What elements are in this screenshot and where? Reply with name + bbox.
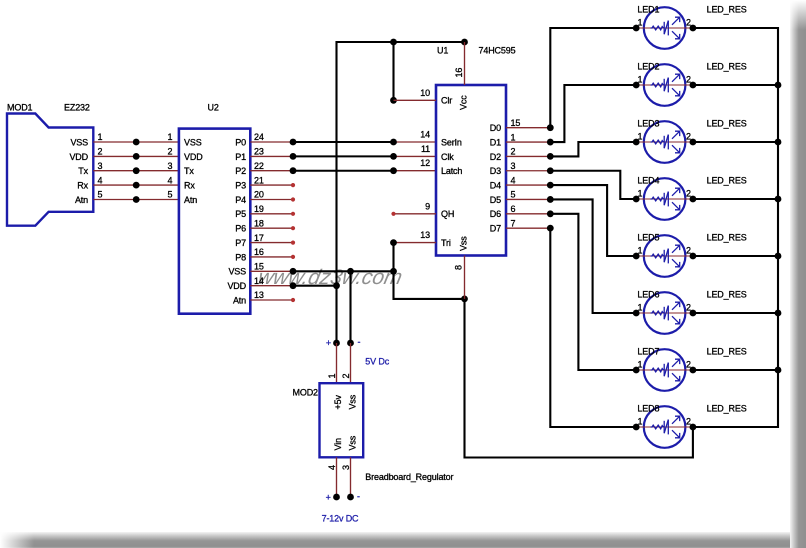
- svg-text:7-12v DC: 7-12v DC: [322, 514, 359, 524]
- wire MOD2 pin 3 to 7-12v minus terminal: [350, 457, 352, 497]
- svg-text:-: -: [357, 492, 360, 502]
- svg-text:2: 2: [341, 374, 351, 379]
- wire U1.D7 to LED8 anode: [550, 228, 636, 427]
- wire U1.D1 to LED2 anode: [550, 85, 636, 142]
- svg-text:LED8: LED8: [637, 404, 659, 414]
- svg-text:VSS: VSS: [70, 137, 88, 147]
- pin stub U2.VDD (14): [250, 285, 293, 287]
- svg-text:2: 2: [686, 18, 691, 28]
- svg-text:U1: U1: [437, 46, 448, 56]
- svg-text:2: 2: [686, 417, 691, 427]
- svg-text:6: 6: [511, 204, 516, 214]
- svg-text:D2: D2: [490, 152, 501, 162]
- svg-text:VSS: VSS: [184, 137, 202, 147]
- U1 left pin numbers 14,11,12: [420, 130, 430, 169]
- wire U2.P1 to U1.Clk: [250, 153, 436, 160]
- svg-text:LED_RES: LED_RES: [707, 62, 747, 72]
- svg-text:SerIn: SerIn: [441, 137, 462, 147]
- svg-text:Breadboard_Regulator: Breadboard_Regulator: [365, 472, 453, 482]
- unconnected pin stub U2.P8: [250, 255, 295, 259]
- unconnected pin stub U2.P5: [250, 212, 295, 216]
- svg-text:D0: D0: [490, 123, 501, 133]
- svg-text:Vss: Vss: [347, 435, 357, 450]
- svg-text:P4: P4: [235, 195, 246, 205]
- svg-text:74HC595: 74HC595: [479, 46, 516, 56]
- LED LED6 (LED_RES): [633, 290, 747, 334]
- wire LED7 pin 2 to bus with junction dot: [693, 367, 781, 374]
- pin stub U1.D3: [506, 167, 554, 174]
- unconnected pin stub U2.P6: [250, 226, 295, 230]
- svg-text:VDD: VDD: [69, 152, 88, 162]
- svg-text:3: 3: [98, 161, 103, 171]
- svg-text:16: 16: [454, 68, 464, 78]
- svg-text:+: +: [326, 493, 331, 503]
- U2 right pin numbers 24..13: [254, 132, 264, 300]
- svg-text:LED_RES: LED_RES: [707, 5, 747, 15]
- svg-text:LED_RES: LED_RES: [707, 347, 747, 357]
- svg-text:Atn: Atn: [75, 195, 88, 205]
- svg-text:D6: D6: [490, 209, 501, 219]
- svg-text:D5: D5: [490, 195, 501, 205]
- wire LED2 pin 2 to bus with junction dot: [693, 82, 781, 89]
- wire U1.D3 to LED4 anode: [550, 171, 636, 199]
- svg-text:LED_RES: LED_RES: [707, 176, 747, 186]
- svg-text:D3: D3: [490, 166, 501, 176]
- svg-text:MOD2: MOD2: [293, 388, 319, 398]
- IC U1 74HC595 body: [436, 85, 506, 256]
- svg-text:MOD1: MOD1: [7, 103, 33, 113]
- LED LED4 (LED_RES): [633, 176, 747, 220]
- svg-text:9: 9: [425, 201, 430, 211]
- svg-text:14: 14: [420, 130, 430, 140]
- svg-text:Atn: Atn: [184, 195, 197, 205]
- svg-text:2: 2: [686, 246, 691, 256]
- svg-text:2: 2: [168, 147, 173, 157]
- svg-text:10: 10: [420, 88, 430, 98]
- LED LED2 (LED_RES): [633, 62, 747, 106]
- svg-text:1: 1: [511, 132, 516, 142]
- svg-text:Latch: Latch: [441, 166, 462, 176]
- unconnected pin stub U2.P4: [250, 197, 295, 201]
- pin stub U1.Tri (13): [390, 239, 436, 246]
- svg-text:LED7: LED7: [637, 347, 659, 357]
- svg-text:EZ232: EZ232: [64, 103, 90, 113]
- svg-text:16: 16: [254, 247, 264, 257]
- svg-text:LED_RES: LED_RES: [707, 404, 747, 414]
- svg-text:22: 22: [254, 161, 264, 171]
- svg-text:D4: D4: [490, 181, 501, 191]
- svg-text:19: 19: [254, 204, 264, 214]
- module MOD2 body: [320, 383, 364, 457]
- svg-text:+5v: +5v: [333, 395, 343, 410]
- 7-12v plus terminal: [326, 493, 340, 503]
- svg-text:P0: P0: [235, 137, 246, 147]
- 7-12v minus terminal: [347, 492, 360, 502]
- LED LED5 (LED_RES): [633, 233, 747, 277]
- svg-text:P1: P1: [235, 152, 246, 162]
- svg-text:Tx: Tx: [78, 166, 88, 176]
- wire U1.D0 to LED1 anode: [550, 28, 636, 128]
- module MOD1 EZ232 connector body: [7, 114, 93, 226]
- svg-text:LED3: LED3: [637, 119, 659, 129]
- svg-text:24: 24: [254, 132, 264, 142]
- svg-text:VDD: VDD: [227, 281, 246, 291]
- svg-text:Vss: Vss: [459, 236, 469, 251]
- unconnected pin stub U2.P3: [250, 183, 295, 187]
- svg-text:P8: P8: [235, 252, 246, 262]
- svg-text:1: 1: [168, 132, 173, 142]
- svg-text:1: 1: [637, 246, 642, 256]
- wire 5V plus to MOD2 pin 1: [336, 343, 338, 383]
- wire U1.D2 to LED3 anode: [550, 142, 636, 156]
- wire MOD1 pin 1 (VSS) to U2 pin 1 with junction dot: [93, 139, 179, 146]
- svg-text:D1: D1: [490, 137, 501, 147]
- svg-text:5: 5: [98, 190, 103, 200]
- wire LED6 pin 2 to bus with junction dot: [693, 310, 781, 317]
- svg-text:13: 13: [254, 290, 264, 300]
- svg-text:Atn: Atn: [233, 295, 246, 305]
- wire U1.D5 to LED6 anode: [550, 199, 636, 313]
- svg-text:15: 15: [511, 118, 521, 128]
- svg-text:LED_RES: LED_RES: [707, 119, 747, 129]
- svg-text:2: 2: [686, 360, 691, 370]
- LED LED7 (LED_RES): [633, 347, 747, 391]
- svg-text:1: 1: [637, 360, 642, 370]
- svg-text:3: 3: [341, 465, 351, 470]
- svg-text:P5: P5: [235, 209, 246, 219]
- pin stub U1.Vss (8): [464, 256, 466, 299]
- 5V DC plus terminal: [326, 338, 340, 348]
- svg-text:D7: D7: [490, 224, 501, 234]
- wire U1.D4 to LED5 anode: [550, 185, 636, 256]
- svg-text:P3: P3: [235, 181, 246, 191]
- wire MOD1 pin 5 (Atn) to U2 pin 5 with junction dot: [93, 196, 179, 203]
- bus LED cathode return (right side): [693, 28, 778, 427]
- wire ground run to LED cathode return: [461, 296, 693, 458]
- pin stub U1.QH (9) with red dot: [391, 212, 436, 216]
- LED LED1 (LED_RES): [633, 5, 747, 49]
- svg-text:Clr: Clr: [441, 96, 452, 106]
- svg-text:QH: QH: [441, 209, 454, 219]
- pin stub U1.D7: [506, 225, 554, 232]
- svg-text:23: 23: [254, 147, 264, 157]
- wire LED3 pin 2 to bus with junction dot: [693, 139, 781, 146]
- wire +5V rail (vertical and top run to U1 Vcc): [337, 39, 468, 343]
- svg-text:1: 1: [637, 18, 642, 28]
- LED LED8 (LED_RES): [633, 404, 747, 448]
- svg-text:P2: P2: [235, 166, 246, 176]
- svg-text:LED1: LED1: [637, 5, 659, 15]
- wire U2.P2 to U1.Latch: [250, 167, 436, 174]
- svg-text:5: 5: [511, 190, 516, 200]
- svg-text:-: -: [358, 337, 361, 347]
- pin stub U1.D1: [506, 139, 554, 146]
- wire ground drop to 5V minus terminal: [349, 271, 351, 343]
- LED LED3 (LED_RES): [633, 119, 747, 163]
- pin stub U2.VSS (15): [250, 270, 293, 272]
- pin stub U1.D2: [506, 153, 554, 160]
- svg-text:LED_RES: LED_RES: [707, 233, 747, 243]
- svg-text:1: 1: [327, 374, 337, 379]
- wire MOD1 pin 4 (Rx) to U2 pin 4 with junction dot: [93, 182, 179, 189]
- IC U2 body: [179, 129, 250, 314]
- pin stub U1.D6: [506, 210, 554, 217]
- svg-text:1: 1: [637, 303, 642, 313]
- svg-text:4: 4: [98, 175, 103, 185]
- svg-text:Vss: Vss: [347, 394, 357, 409]
- svg-text:Tri: Tri: [441, 238, 451, 248]
- svg-text:4: 4: [327, 465, 337, 470]
- wire +5V tap down to U1.Clr: [390, 42, 397, 104]
- svg-text:18: 18: [254, 218, 264, 228]
- wire U1.D6 to LED7 anode: [550, 214, 636, 370]
- svg-text:12: 12: [420, 158, 430, 168]
- svg-text:5: 5: [168, 190, 173, 200]
- svg-text:2: 2: [511, 147, 516, 157]
- wire ground rail U2.VSS to Tri tap: [290, 268, 397, 275]
- pin stub U1.D0: [506, 124, 554, 131]
- wire LED5 pin 2 to bus with junction dot: [693, 253, 781, 260]
- U1 right pin numbers: [511, 118, 521, 228]
- svg-text:LED_RES: LED_RES: [707, 290, 747, 300]
- svg-text:5V Dc: 5V Dc: [365, 357, 389, 367]
- svg-text:www.dz3w.com: www.dz3w.com: [256, 266, 404, 289]
- U2 right pin name labels: [227, 137, 246, 305]
- svg-text:1: 1: [637, 189, 642, 199]
- svg-text:Vin: Vin: [333, 438, 343, 451]
- svg-text:LED2: LED2: [637, 62, 659, 72]
- svg-text:LED5: LED5: [637, 233, 659, 243]
- svg-text:LED4: LED4: [637, 176, 659, 186]
- svg-text:1: 1: [637, 417, 642, 427]
- svg-text:20: 20: [254, 190, 264, 200]
- MOD1 pin name labels: [69, 137, 88, 205]
- wire 5V minus to MOD2 pin 2: [350, 343, 352, 383]
- svg-text:13: 13: [420, 230, 430, 240]
- U1 right pin name labels D0-D7: [490, 123, 501, 233]
- svg-text:Tx: Tx: [184, 166, 194, 176]
- svg-text:Clk: Clk: [441, 152, 454, 162]
- wire MOD1 pin 2 (VDD) to U2 pin 2 with junction dot: [93, 153, 179, 160]
- pin stub U1.Vcc (16): [464, 42, 466, 85]
- svg-text:17: 17: [254, 233, 264, 243]
- svg-text:2: 2: [686, 189, 691, 199]
- U2 left pin name labels: [184, 137, 203, 205]
- svg-text:P7: P7: [235, 238, 246, 248]
- svg-text:2: 2: [686, 132, 691, 142]
- pin stub U1.D4: [506, 182, 554, 189]
- svg-text:3: 3: [168, 161, 173, 171]
- svg-text:VDD: VDD: [184, 152, 203, 162]
- svg-text:21: 21: [254, 175, 264, 185]
- svg-text:1: 1: [637, 132, 642, 142]
- U1 left pin name labels: [441, 96, 462, 248]
- svg-text:2: 2: [686, 303, 691, 313]
- svg-text:+: +: [326, 338, 331, 348]
- wire U2.P0 to U1.SerIn: [250, 139, 436, 146]
- svg-text:2: 2: [98, 147, 103, 157]
- svg-text:Vcc: Vcc: [459, 95, 469, 110]
- svg-text:1: 1: [637, 75, 642, 85]
- svg-text:Rx: Rx: [184, 181, 195, 191]
- svg-text:7: 7: [511, 218, 516, 228]
- wire MOD1 pin 3 (Tx) to U2 pin 3 with junction dot: [93, 167, 179, 174]
- svg-text:U2: U2: [208, 103, 219, 113]
- svg-text:P6: P6: [235, 224, 246, 234]
- svg-text:2: 2: [686, 75, 691, 85]
- pin stub U1.D5: [506, 196, 554, 203]
- svg-text:8: 8: [454, 265, 464, 270]
- svg-text:11: 11: [421, 144, 430, 154]
- svg-text:1: 1: [98, 132, 103, 142]
- svg-text:VSS: VSS: [228, 267, 246, 277]
- wire Tri / ground rail down to U1 Vss: [394, 243, 465, 299]
- svg-text:LED6: LED6: [637, 290, 659, 300]
- wire LED4 pin 2 to bus with junction dot: [693, 196, 781, 203]
- svg-text:4: 4: [511, 175, 516, 185]
- unconnected pin stub U2.P7: [250, 241, 295, 245]
- svg-text:3: 3: [511, 161, 516, 171]
- wire U2.VDD to +5V rail: [290, 282, 340, 289]
- svg-text:Rx: Rx: [77, 181, 88, 191]
- wire MOD2 pin 4 to 7-12v plus terminal: [336, 457, 338, 497]
- svg-text:4: 4: [168, 175, 173, 185]
- pin stub U1.Clr (10): [394, 99, 437, 101]
- unconnected pin stub U2.Atn: [250, 298, 295, 302]
- 5V DC minus terminal: [347, 337, 360, 347]
